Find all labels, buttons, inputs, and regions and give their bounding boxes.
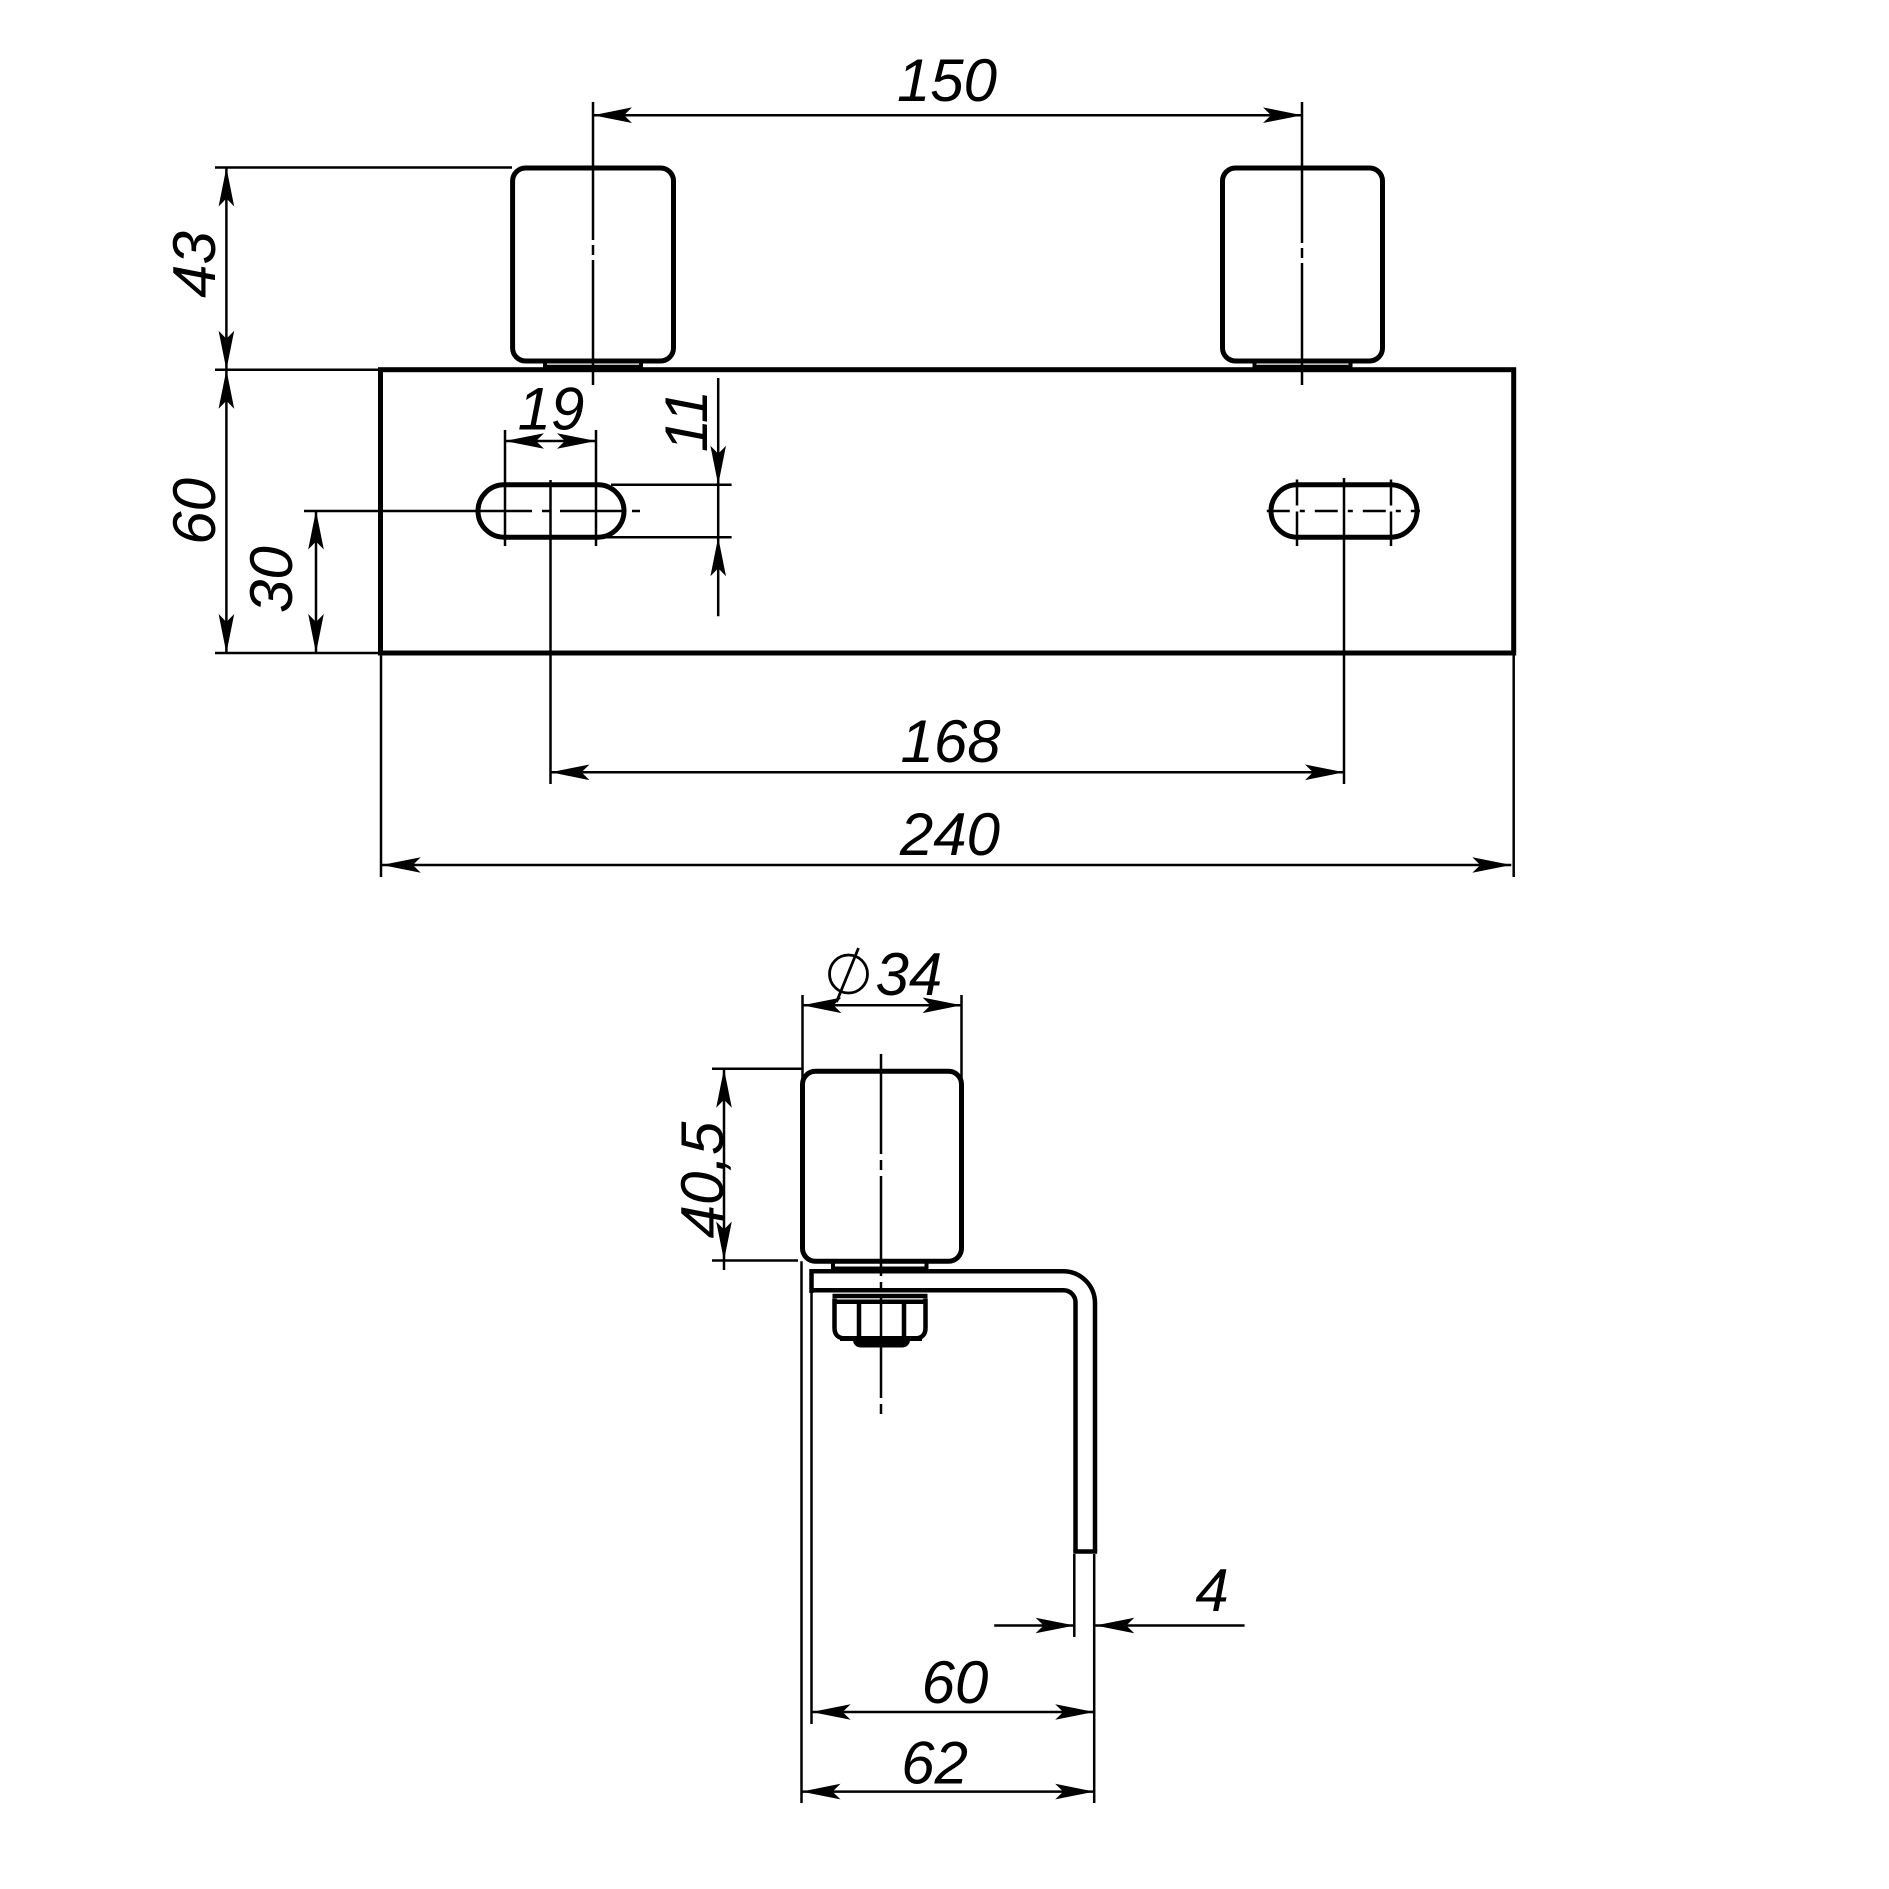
slot right vertical centerline / 168-extension [1343,478,1346,784]
plate (mounting bar) outline [381,370,1514,653]
roller side foot [831,1261,929,1268]
dimension 60 arrow bottom [219,614,235,653]
dimension 60 bottom arrow right [1055,1704,1094,1720]
svg-text:40,5: 40,5 [669,1121,736,1238]
slot right horizontal centerline [1267,510,1420,513]
dimension dia34 extension left [801,995,804,1080]
dimension 62 arrow left [802,1784,841,1800]
slot left obround [478,485,624,537]
slot left arc-center tick / 19-extension right [595,430,598,546]
roller right foot [1253,361,1353,367]
dimension 11 arrow bottom (outside, pointing up) [710,537,726,576]
bracket leg bottom cap [1073,1549,1097,1554]
svg-text:11: 11 [653,390,720,452]
dimension 19 arrow left [505,433,544,449]
dimension 40,5 line [723,1069,726,1270]
dimension 30 line [315,511,318,654]
dimension 43 extension line top [215,166,512,169]
bolt tip below nut [853,1336,910,1348]
dimension 62 extension left (roller edge) [800,1261,803,1803]
dimension 11 extension line bottom [605,536,732,539]
roller left body [513,168,674,361]
dimension 40,5 arrow bottom [716,1222,732,1261]
dimension 4 extension right (leg outer edge) [1093,1554,1096,1803]
dimension 60 bottom extension left [810,1293,813,1724]
svg-text:30: 30 [238,546,305,613]
bracket outer profile [812,1271,1096,1551]
dimension 4 tail left [994,1624,1074,1627]
dimension 30 arrow bottom [308,614,324,653]
roller right centerline [1301,102,1304,385]
dimension 62 arrow right [1055,1784,1094,1800]
dimension 4 arrow right (pointing left) [1095,1618,1134,1634]
dimension 43 arrow bottom [219,331,235,370]
dimension 4 extension left (leg inner edge) [1073,1554,1076,1637]
dimension 60 extension line bottom [215,652,378,655]
dimension 62 line [802,1790,1095,1793]
dimension 11 line [717,378,720,616]
dimension 43 extension line bottom [215,368,378,371]
dimension 168 arrow left [551,765,590,781]
dimension 240 arrow left [382,857,421,873]
dimension 168 arrow right [1305,765,1344,781]
dimension 150 arrow left [593,107,632,123]
svg-text:43: 43 [161,231,228,298]
dimension 11 extension line top [611,484,732,487]
roller side centerline [880,1054,883,1416]
dimension 240 line [382,864,1512,867]
slot right arc-center ticks [1297,480,1391,547]
dimension 150 line [593,114,1302,117]
roller left centerline [592,102,595,385]
svg-text:240: 240 [899,801,1000,868]
dimension dia34 arrow left [803,998,842,1014]
svg-text:62: 62 [901,1730,968,1797]
dimension 43 line [225,168,228,370]
dimension 40,5 extension top [712,1068,802,1071]
washer line under bracket [833,1294,928,1299]
dimension 60 bottom line [812,1711,1095,1714]
dimension 168 line [551,771,1345,774]
diameter symbol [830,955,868,993]
svg-text:150: 150 [897,47,997,114]
roller side body [803,1071,962,1261]
dimension 11 arrow top (outside, pointing down) [710,446,726,485]
slot right obround [1271,485,1417,537]
bracket left end cap [809,1269,814,1293]
svg-text:168: 168 [901,708,1002,775]
hex nut inner facet lines [859,1302,904,1336]
dimension dia34 line [803,1004,962,1007]
dimension 150 arrow right [1263,107,1302,123]
svg-text:19: 19 [518,376,585,443]
dimension 4 arrow left (pointing right) [1036,1618,1075,1634]
slot left vertical centerline / 168-extension [549,480,552,784]
dimension 40,5 extension bottom [712,1259,798,1262]
slot left arc-center tick / 19-extension left [504,430,507,546]
dimension 30 arrow top [308,511,324,550]
dimension 60 line [225,370,228,653]
hex nut top face line [836,1299,925,1304]
slot left horizontal centerline [304,510,470,513]
dimension 240 extension line right [1512,656,1515,878]
dimension 19 arrow right [557,433,596,449]
svg-text:60: 60 [922,1649,989,1716]
hex nut bottom band [840,1336,922,1341]
hex nut outline with rounded bottom corners [835,1299,926,1339]
svg-text:4: 4 [1195,1557,1228,1624]
dimension dia34 extension right [960,995,963,1080]
dimension 4 tail right [1095,1624,1244,1627]
svg-text:60: 60 [161,478,228,545]
bracket inner profile [812,1290,1076,1551]
roller left foot [543,361,643,367]
dimension 240 arrow right [1472,857,1511,873]
dimension 19 line [505,440,596,443]
dimension 60 bottom arrow left [812,1704,851,1720]
roller right body [1223,168,1383,361]
dimension 240 extension line left [380,656,383,878]
dimension 43 arrow top [219,168,235,207]
dimension 60 arrow top [219,370,235,409]
dimension 40,5 arrow top [716,1069,732,1108]
dimension dia34 arrow right [923,998,962,1014]
svg-text:34: 34 [876,941,943,1008]
